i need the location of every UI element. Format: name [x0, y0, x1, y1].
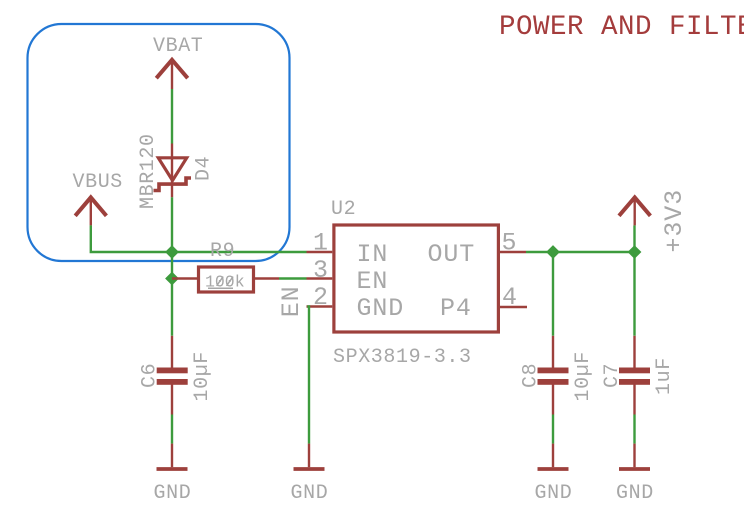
svg-text:5: 5	[502, 229, 518, 258]
svg-text:GND: GND	[357, 294, 405, 323]
svg-text:U2: U2	[331, 198, 356, 221]
sheet frame (blue rounded info box)	[28, 24, 290, 261]
pin 1 lead	[307, 251, 333, 253]
wire C6 to GND	[171, 415, 173, 444]
capacitor C8 plates	[538, 368, 569, 385]
supply symbol VBAT	[156, 60, 187, 89]
svg-text:D4: D4	[193, 156, 216, 181]
svg-text:POWER AND FILTERING: POWER AND FILTERING	[499, 12, 744, 43]
wire R9 to U2 pin 3	[279, 277, 307, 279]
svg-text:EN: EN	[357, 267, 389, 296]
svg-text:1: 1	[313, 229, 329, 258]
svg-text:C7: C7	[601, 363, 624, 388]
diode D4 (schottky)	[154, 144, 192, 198]
IC U2 body	[334, 225, 499, 332]
wire junction to U2 pin 1	[172, 251, 307, 253]
svg-text:4: 4	[502, 283, 518, 312]
svg-text:GND: GND	[291, 482, 329, 505]
ground GND (pin2)	[294, 444, 325, 469]
junction D (+3V3/C7)	[628, 245, 642, 259]
svg-text:2: 2	[313, 283, 329, 312]
svg-text:P4: P4	[440, 294, 472, 323]
pin 4 lead	[500, 306, 527, 308]
wire up to +3V3	[633, 225, 635, 252]
pin 3 lead	[307, 277, 333, 279]
junction C (C8 tap)	[546, 245, 560, 259]
wire D4 to junction	[171, 197, 173, 252]
svg-text:C6: C6	[139, 363, 162, 388]
ground GND (C8)	[538, 444, 569, 469]
svg-text:EN: EN	[277, 285, 306, 317]
capacitor C6 plates	[157, 368, 188, 385]
junction A (VBUS/VBAT)	[165, 245, 179, 259]
svg-text:GND: GND	[535, 482, 573, 505]
svg-text:VBAT: VBAT	[153, 35, 203, 58]
pin 2 lead	[307, 305, 333, 307]
wire junction down	[171, 252, 173, 336]
junction B (R9 tap)	[165, 272, 179, 286]
wire VBAT to D4	[171, 89, 173, 144]
ground GND (C7)	[619, 444, 650, 469]
wire C8 to GND	[552, 415, 554, 444]
svg-text:1uF: 1uF	[653, 357, 676, 395]
pin 5 lead	[500, 251, 526, 253]
wire junction C down to C8	[552, 252, 554, 336]
svg-text:R9: R9	[210, 240, 235, 263]
svg-text:3: 3	[313, 256, 329, 285]
svg-text:10µF: 10µF	[572, 351, 595, 401]
value 100k zero slashes	[208, 277, 233, 289]
svg-text:VBUS: VBUS	[73, 171, 123, 194]
capacitor C6 leads	[171, 336, 173, 415]
wire U2 pin 5 to +3V3 rail	[526, 251, 635, 253]
svg-text:SPX3819-3.3: SPX3819-3.3	[333, 346, 472, 369]
svg-text:OUT: OUT	[428, 240, 476, 269]
capacitor C7 leads	[633, 336, 635, 415]
supply symbol VBUS	[75, 197, 106, 225]
wire VBUS down and right to junction	[91, 225, 172, 252]
resistor R9	[172, 267, 279, 292]
svg-text:C8: C8	[520, 363, 543, 388]
svg-text:10µF: 10µF	[191, 351, 214, 401]
ground GND (C6)	[157, 444, 188, 469]
svg-text:GND: GND	[616, 482, 654, 505]
svg-text:IN: IN	[357, 240, 389, 269]
svg-text:GND: GND	[154, 482, 192, 505]
wire U2 pin 2 to GND	[307, 307, 309, 444]
svg-text:+3V3: +3V3	[660, 189, 689, 253]
wire junction D down to C7	[633, 252, 635, 336]
supply symbol +3V3	[619, 197, 650, 225]
capacitor C8 leads	[552, 336, 554, 415]
wire C7 to GND	[633, 415, 635, 444]
svg-text:MBR120: MBR120	[137, 133, 160, 209]
capacitor C7 plates	[619, 368, 650, 385]
